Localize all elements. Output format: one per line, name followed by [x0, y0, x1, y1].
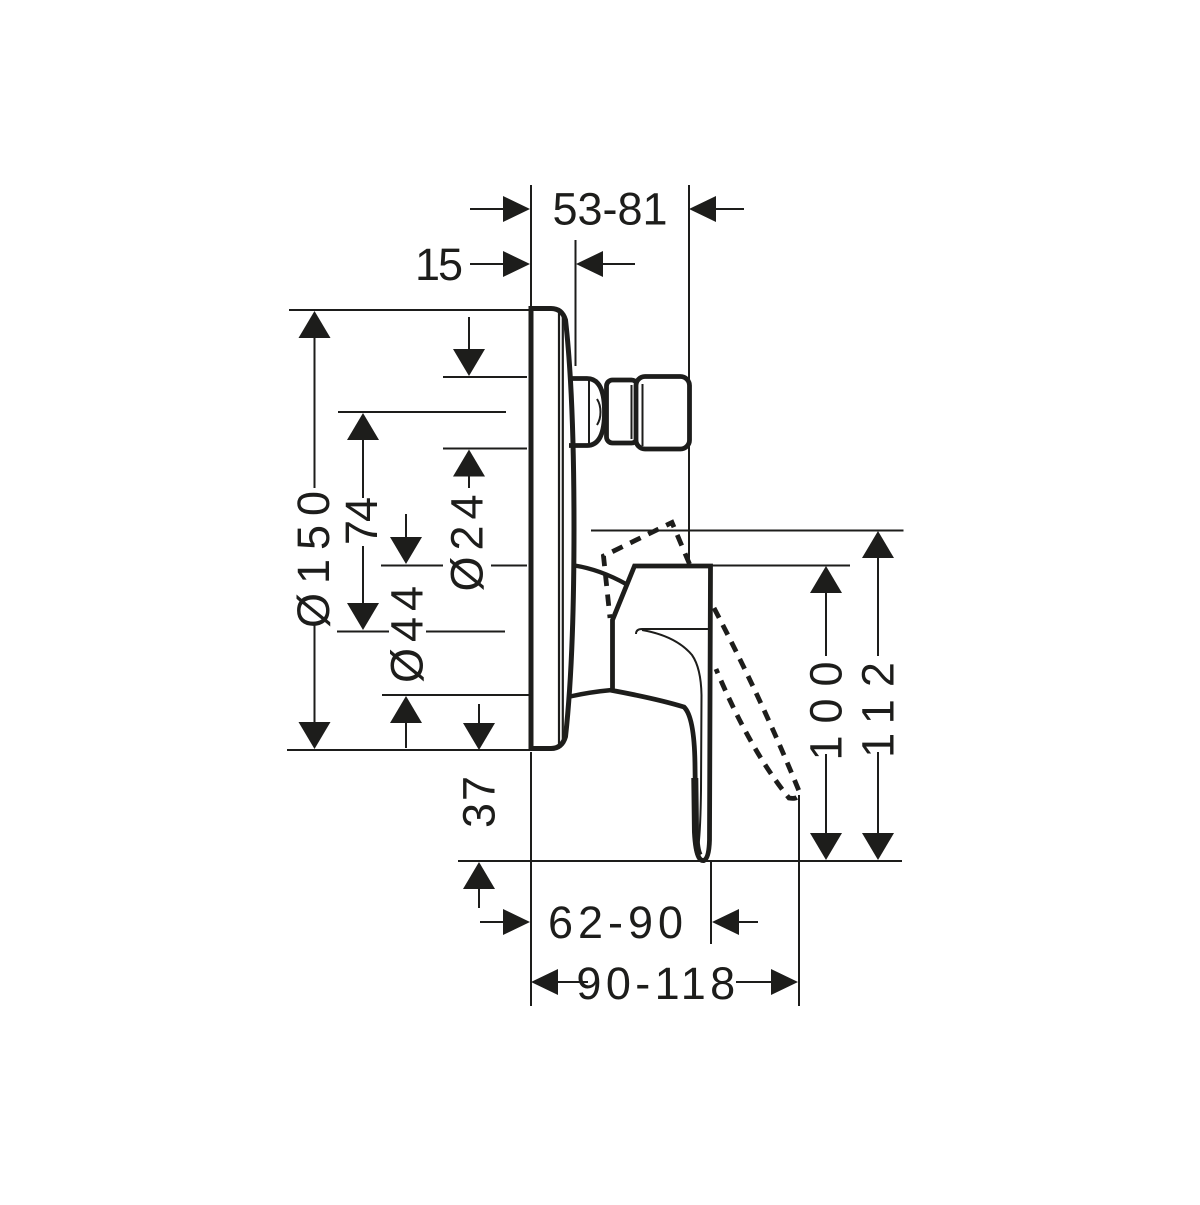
dim 100 bottom arrow — [810, 754, 842, 860]
svg-text:53-81: 53-81 — [552, 184, 667, 235]
svg-text:100: 100 — [801, 649, 852, 760]
handle body — [613, 566, 711, 861]
extension line plate top (y=310) — [289, 309, 529, 311]
handle blade inner shading — [695, 778, 700, 856]
dim 90-118 right arrow — [736, 969, 798, 995]
escutcheon plate outline — [531, 309, 574, 749]
cartridge cap top edge — [575, 566, 627, 585]
dim O24 top arrow — [453, 317, 485, 376]
knob body — [636, 377, 690, 450]
handle grip curve — [642, 630, 702, 845]
extension line x=531 bottom — [530, 752, 532, 1006]
knob body face line — [642, 384, 644, 446]
cartridge cap bottom edge — [570, 690, 612, 697]
extension line handle tip (x=711) — [710, 862, 712, 944]
extension line cap top (y=565.5 left of plate) — [381, 565, 443, 567]
extension line 112 top (y=530.5) — [591, 530, 904, 532]
knob neck — [569, 379, 605, 446]
extension line wall face (x=531 top) — [530, 185, 532, 308]
dim O44 bottom arrow — [390, 696, 422, 748]
dim 62-90 left arrow — [480, 909, 530, 935]
dim 74 top arrow — [347, 413, 379, 498]
dim 37 top arrow — [463, 704, 495, 750]
extension line knob top (y=377) — [443, 376, 527, 378]
extension line knob axis (y=412) — [338, 411, 506, 413]
extension line dashed tip (x=799) — [798, 795, 800, 1006]
dim O150 bottom arrow — [299, 622, 331, 749]
extension line plate bottom (y=750) — [287, 749, 531, 751]
svg-text:Ø150: Ø150 — [288, 482, 339, 628]
extension line 100 top / handle top (y=565.5 right) — [712, 565, 850, 567]
dim 100 top arrow — [810, 566, 842, 656]
svg-text:62-90: 62-90 — [548, 897, 688, 948]
dim O24 bottom arrow — [453, 450, 485, 489]
extension line grip top (y=631.5) — [337, 631, 389, 633]
extension line plate front (x=575.5) — [575, 240, 577, 366]
extension line knob face (x=689) — [688, 185, 690, 564]
svg-text:90-118: 90-118 — [576, 958, 739, 1009]
svg-text:15: 15 — [415, 239, 462, 290]
knob middle face line — [631, 385, 633, 439]
dim 74 bottom arrow — [347, 546, 379, 630]
dim O44 top arrow — [390, 514, 422, 564]
plate inner rim line 1 — [558, 313, 560, 746]
dim 112 bottom arrow — [862, 752, 894, 860]
base line (y=861) — [458, 860, 902, 862]
dim 37 bottom arrow — [463, 862, 495, 908]
knob neck face line — [588, 381, 590, 443]
svg-text:37: 37 — [454, 774, 505, 828]
dashed handle raised outline — [604, 523, 690, 619]
knob middle cylinder — [607, 380, 638, 443]
svg-text:Ø24: Ø24 — [442, 488, 493, 591]
extension line cap bottom (y=695) — [382, 694, 529, 696]
plate inner rim line 2 — [562, 316, 564, 743]
handle grip line — [636, 629, 709, 634]
extension line knob bottom (y=448.5) — [443, 448, 527, 450]
svg-text:Ø44: Ø44 — [382, 580, 433, 683]
knob neck inner arc — [597, 399, 601, 425]
dim O150 top arrow — [299, 311, 331, 488]
dim 62-90 right arrow — [712, 909, 758, 935]
dim 90-118 left arrow — [531, 969, 588, 995]
svg-text:112: 112 — [853, 650, 904, 758]
dim 53-81 right arrow — [689, 196, 744, 222]
dim 53-81 left arrow — [470, 196, 530, 222]
dim 15 right arrow — [576, 251, 635, 277]
dim 15 left arrow — [470, 251, 530, 277]
svg-text:74: 74 — [336, 498, 387, 545]
dashed handle raised lever — [714, 608, 799, 798]
dim 112 top arrow — [862, 531, 894, 656]
